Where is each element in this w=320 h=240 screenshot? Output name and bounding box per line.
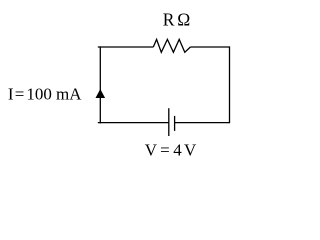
svg-text:I=100mA: I=100mA <box>8 85 82 104</box>
svg-text:V=4V: V=4V <box>145 141 197 160</box>
wire: top-left segment from left branch to resistor <box>98 46 154 48</box>
wire: bottom-right segment from battery to right corner <box>175 122 230 124</box>
battery V short plate <box>174 116 176 131</box>
wire: bottom-left segment from left branch to battery <box>98 122 169 124</box>
svg-text:Ω: Ω <box>177 9 190 29</box>
current direction arrowhead <box>96 89 106 98</box>
resistor R (zigzag) <box>153 39 190 52</box>
wire: top-right segment from resistor to right corner <box>190 46 229 48</box>
wire: left vertical branch carrying current I <box>99 46 101 123</box>
svg-text:R: R <box>163 9 175 29</box>
battery V long plate <box>168 108 170 136</box>
wire: right vertical branch <box>229 46 231 123</box>
